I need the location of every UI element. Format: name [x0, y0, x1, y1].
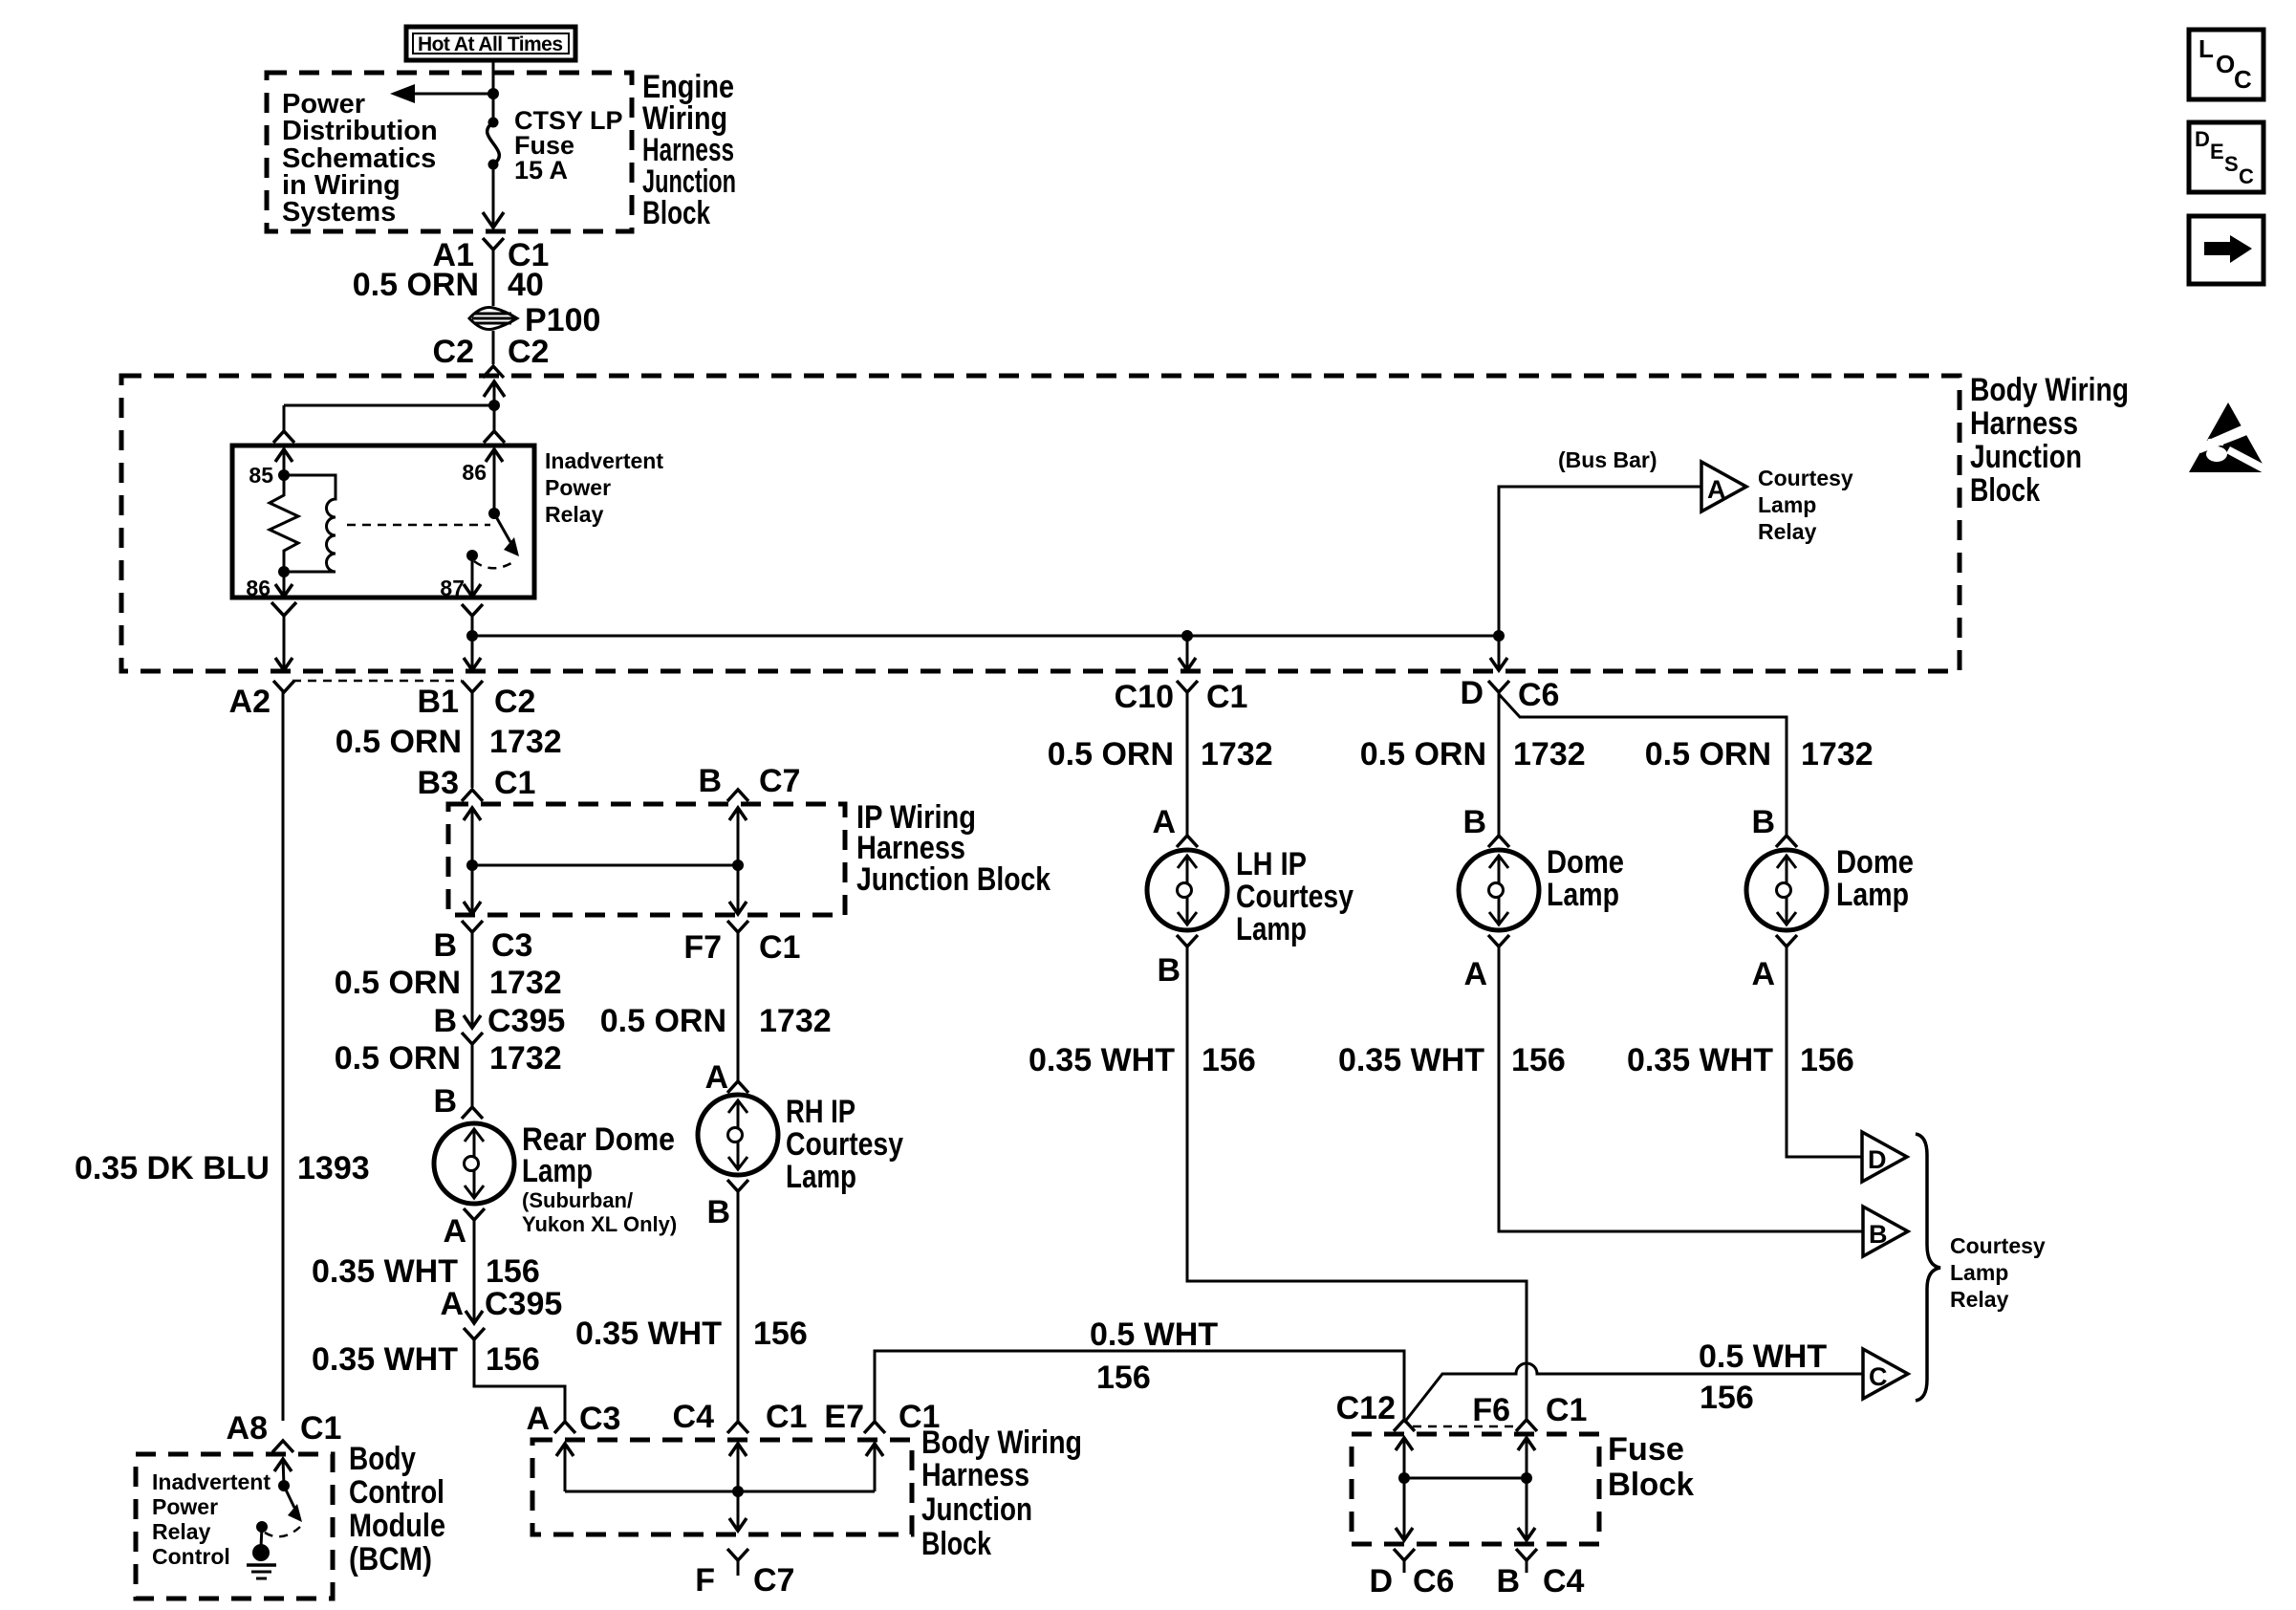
coil of relay	[284, 475, 336, 572]
connector C6 pin D (fork below fuse block)	[1394, 1549, 1415, 1560]
courtesy lamp relay pin B (triangle)	[1863, 1207, 1908, 1256]
svg-text:Body Wiring: Body Wiring	[921, 1425, 1082, 1461]
connector C6 pin D (fork below body block)	[1488, 681, 1509, 692]
connector C1 pin E7 (fork)	[864, 1422, 885, 1433]
svg-text:156: 156	[1800, 1042, 1854, 1078]
wire: fuse output lead	[492, 250, 495, 306]
svg-text:F6: F6	[1472, 1392, 1510, 1428]
svg-text:A: A	[1463, 956, 1487, 992]
svg-text:Lamp: Lamp	[522, 1153, 593, 1189]
lower block internal bus	[565, 1490, 875, 1493]
svg-text:C3: C3	[579, 1401, 620, 1437]
svg-text:156: 156	[1096, 1360, 1151, 1396]
svg-text:C: C	[2239, 164, 2254, 188]
svg-text:Block: Block	[1970, 472, 2040, 509]
wire: node 86 to case edge	[283, 572, 286, 597]
svg-text:A8: A8	[227, 1410, 268, 1447]
wire: splice to body junction block	[492, 331, 495, 364]
svg-text:1732: 1732	[1201, 736, 1273, 772]
svg-text:C1: C1	[300, 1410, 341, 1447]
label: Courtesy Lamp Relay (right)	[1950, 1233, 2046, 1312]
IP block left exit with arrow	[471, 865, 474, 914]
svg-text:156: 156	[1202, 1042, 1256, 1078]
svg-text:Power: Power	[152, 1494, 218, 1519]
label: Fuse Block	[1608, 1431, 1694, 1503]
svg-text:A: A	[1707, 475, 1726, 504]
svg-text:C10: C10	[1115, 679, 1174, 715]
wire: switched feed bus across junction block	[472, 635, 1499, 638]
connector fork at RH IP lamp pin B	[727, 1180, 748, 1191]
lower block right riser with entry arrow	[874, 1444, 877, 1491]
fuse block exit arrows	[1396, 1528, 1413, 1540]
svg-text:C2: C2	[508, 334, 549, 370]
svg-text:A2: A2	[229, 684, 271, 720]
svg-text:A: A	[443, 1213, 466, 1250]
connector fork at dome lamp 1 pin B	[1488, 836, 1509, 847]
wire: BCM control lead (0.35 DK BLU 1393)	[282, 692, 285, 1421]
body wiring harness junction block (large dashed box)	[121, 376, 1960, 671]
connector C7 pin B (fork above IP block)	[727, 790, 748, 801]
svg-text:Courtesy: Courtesy	[1950, 1233, 2046, 1258]
switch throw arc (dashed)	[474, 560, 516, 568]
svg-text:O: O	[2216, 50, 2235, 78]
connector C2 pin A2 (fork below block)	[273, 681, 294, 692]
connector fork at rear dome lamp pin A	[464, 1208, 485, 1220]
arrow at block edge (BCM control lead)	[275, 658, 292, 670]
wire: dome lamp 1 feed	[1498, 692, 1501, 836]
connector C1 pin C10 (fork below body block)	[1177, 681, 1198, 692]
icon: LOC reference box	[2189, 30, 2264, 99]
svg-text:0.5 ORN: 0.5 ORN	[1645, 736, 1771, 772]
junction node at power distribution tap	[487, 88, 499, 99]
svg-text:A: A	[704, 1059, 728, 1096]
svg-text:Courtesy: Courtesy	[1758, 466, 1853, 490]
connector C1 pin C4 (fork)	[727, 1422, 748, 1433]
arrow at engine block edge	[483, 212, 504, 228]
svg-text:Inadvertent: Inadvertent	[152, 1469, 271, 1494]
wire: rear dome lamp ground to C3 pin A	[474, 1339, 565, 1421]
svg-text:LH IP: LH IP	[1236, 846, 1307, 882]
svg-text:Dome: Dome	[1547, 844, 1624, 881]
wire: pin 86 lead to block edge	[283, 616, 286, 670]
label: Dome Lamp (1)	[1547, 844, 1624, 913]
svg-text:D: D	[2195, 127, 2210, 151]
connector fork at dome lamp 1 pin A	[1488, 935, 1509, 946]
label: Body Control Module (BCM)	[349, 1441, 445, 1577]
wire: bus drop to C2 pin B1	[471, 636, 474, 670]
wire: RH IP courtesy lamp feed	[737, 932, 740, 1081]
switch pivot node	[488, 508, 500, 519]
svg-text:B: B	[1751, 804, 1775, 840]
svg-text:Power: Power	[545, 475, 611, 500]
svg-text:Relay: Relay	[1950, 1287, 2009, 1312]
svg-text:(Bus Bar): (Bus Bar)	[1558, 447, 1657, 472]
svg-text:A: A	[1751, 956, 1775, 992]
svg-text:Control: Control	[152, 1544, 230, 1569]
svg-text:Relay: Relay	[152, 1519, 211, 1544]
fuse block right riser with entry arrow	[1526, 1438, 1528, 1540]
svg-text:Lamp: Lamp	[1758, 492, 1816, 517]
label: CTSY LP Fuse 15 A	[514, 106, 623, 185]
svg-text:Lamp: Lamp	[786, 1159, 856, 1195]
svg-text:Distribution: Distribution	[282, 116, 438, 146]
arrow leaving relay case at pin 86	[275, 584, 292, 597]
svg-text:Control: Control	[349, 1474, 444, 1511]
svg-text:C2: C2	[433, 334, 474, 370]
wire: drop to relay pin 85	[283, 405, 286, 430]
wire: rear dome lamp feed upper segment	[471, 932, 474, 1027]
connector C7 pin F (fork below block)	[727, 1549, 748, 1560]
connector C2 pin B1 (fork below block)	[462, 681, 483, 692]
svg-text:(BCM): (BCM)	[349, 1541, 432, 1577]
wire: LH IP courtesy lamp feed	[1186, 692, 1189, 836]
svg-text:E7: E7	[824, 1399, 864, 1435]
svg-text:B: B	[698, 763, 722, 799]
svg-text:Relay: Relay	[1758, 519, 1817, 544]
lower block left riser with entry arrow	[564, 1444, 567, 1491]
svg-text:Lamp: Lamp	[1836, 877, 1909, 913]
power source label "Hot At All Times"	[406, 27, 575, 60]
svg-text:B: B	[1869, 1220, 1888, 1249]
connector C1 pin A1 (fork)	[483, 238, 504, 250]
svg-text:0.5 ORN: 0.5 ORN	[336, 724, 462, 760]
svg-text:B: B	[433, 1083, 457, 1120]
note: Power Distribution Schematics in Wiring Systems	[282, 89, 438, 228]
connector fork at dome lamp 2 pin A	[1776, 935, 1797, 946]
operating link (dashed) from coil to switch	[347, 524, 490, 527]
connector C4 pin B (fork below fuse block)	[1516, 1549, 1537, 1560]
connector fork at relay pin 85	[273, 431, 294, 443]
svg-text:86: 86	[246, 576, 271, 600]
svg-text:C1: C1	[766, 1399, 807, 1435]
svg-text:156: 156	[1511, 1042, 1566, 1078]
svg-text:C4: C4	[673, 1399, 715, 1435]
svg-text:0.5 ORN: 0.5 ORN	[353, 267, 479, 303]
IP block left riser with entry arrow	[471, 808, 474, 865]
wire: courtesy feed to IP junction block	[471, 692, 474, 788]
BCM driver entry arrow	[283, 1459, 284, 1486]
connector C1 pin B3 (fork above IP block)	[462, 790, 483, 801]
in-line connector C395 (arrow and fork)	[466, 1311, 483, 1323]
wire: branch from C12 to courtesy lamp relay pin C (with hop)	[1404, 1363, 1863, 1423]
svg-text:C: C	[1869, 1362, 1888, 1391]
svg-text:Lamp: Lamp	[1547, 877, 1619, 913]
wire: RH IP lamp ground to C1 pin C4	[737, 1191, 740, 1421]
svg-text:1732: 1732	[1513, 736, 1586, 772]
svg-text:L: L	[2199, 34, 2214, 63]
svg-text:C395: C395	[485, 1286, 562, 1322]
connector C3 pin A (fork)	[554, 1422, 575, 1433]
label: Body Wiring Harness Junction Block (lower)	[921, 1425, 1082, 1562]
label: IP Wiring Harness Junction Block	[856, 799, 1051, 898]
svg-text:(Suburban/: (Suburban/	[522, 1188, 633, 1212]
wire: rear dome lamp ground upper segment	[473, 1220, 476, 1322]
svg-text:156: 156	[486, 1341, 540, 1378]
lamp: Dome Lamp (1)	[1459, 850, 1539, 930]
IP block right exit with arrow	[737, 865, 740, 914]
switch blade with arrowhead	[494, 513, 510, 542]
connector fork at rear dome lamp pin B	[462, 1107, 483, 1119]
svg-text:Harness: Harness	[1970, 405, 2078, 442]
svg-text:0.35 WHT: 0.35 WHT	[1338, 1042, 1484, 1078]
label: Courtesy Lamp Relay	[1758, 466, 1853, 544]
connector body (dashed link A2 to B1)	[292, 680, 462, 683]
wire: fuse output down to junction block edge	[492, 164, 495, 228]
svg-text:B: B	[433, 927, 457, 964]
svg-text:1732: 1732	[1801, 736, 1874, 772]
svg-text:C395: C395	[487, 1003, 565, 1039]
wire: bus bar riser to courtesy lamp relay	[1499, 487, 1701, 636]
svg-text:B1: B1	[418, 684, 459, 720]
svg-text:0.5 ORN: 0.5 ORN	[600, 1003, 726, 1039]
IP block internal bus	[472, 864, 738, 867]
wire: contact to case edge	[471, 555, 474, 597]
label: Rear Dome Lamp (Suburban/Yukon XL Only)	[522, 1121, 677, 1236]
courtesy lamp relay pin A (triangle)	[1701, 462, 1746, 511]
junction nodes on fuse bus	[1398, 1472, 1410, 1484]
brace grouping relay pins	[1916, 1134, 1940, 1401]
wire: battery feed from Hot At All Times into fuse	[492, 59, 495, 122]
svg-text:C7: C7	[753, 1562, 794, 1599]
svg-text:C1: C1	[1206, 679, 1247, 715]
relay U1: Inadvertent Power Relay (case)	[232, 446, 534, 598]
connector fork below relay pin 87	[462, 604, 483, 616]
wire: dome lamp 1 ground to courtesy lamp relay pin B	[1499, 946, 1863, 1231]
icon: DESC reference box	[2189, 122, 2264, 192]
svg-text:Yukon XL Only): Yukon XL Only)	[522, 1212, 677, 1236]
label: Body Wiring Harness Junction Block (top right)	[1970, 372, 2129, 509]
svg-text:C7: C7	[759, 763, 800, 799]
svg-text:A: A	[440, 1286, 464, 1322]
label: Inadvertent Power Relay Control	[152, 1469, 271, 1569]
svg-text:Inadvertent: Inadvertent	[545, 448, 663, 473]
BCM switch blade with arrowhead	[284, 1486, 294, 1508]
svg-text:C3: C3	[491, 927, 532, 964]
wire: LH IP lamp ground to fuse block F6	[1187, 946, 1527, 1420]
svg-text:Junction: Junction	[921, 1491, 1032, 1528]
arrow leaving relay case at pin 87	[464, 584, 481, 597]
svg-text:Dome: Dome	[1836, 844, 1914, 881]
svg-text:A: A	[526, 1401, 550, 1437]
svg-text:1732: 1732	[489, 1040, 562, 1077]
svg-text:Junction: Junction	[1970, 439, 2082, 475]
connector fork at dome lamp 2 pin B	[1776, 836, 1797, 847]
courtesy lamp relay pin C (triangle)	[1863, 1349, 1908, 1399]
svg-text:87: 87	[440, 576, 465, 600]
lamp: Rear Dome Lamp	[434, 1123, 514, 1204]
svg-text:0.5 ORN: 0.5 ORN	[335, 1040, 461, 1077]
connector C2 fork at body junction block	[483, 366, 504, 378]
svg-text:C: C	[2234, 65, 2252, 94]
svg-text:B: B	[706, 1194, 730, 1230]
connector fork at RH IP lamp pin A	[727, 1081, 748, 1093]
fuse block (dashed box)	[1352, 1434, 1599, 1544]
icon: ESD sensitive device symbol	[2189, 402, 2270, 475]
svg-text:C1: C1	[1546, 1392, 1587, 1428]
svg-text:B: B	[1496, 1563, 1520, 1599]
svg-text:0.35 WHT: 0.35 WHT	[575, 1316, 722, 1352]
body control module BCM (dashed box)	[136, 1454, 333, 1599]
svg-text:A: A	[1152, 804, 1176, 840]
svg-text:RH IP: RH IP	[786, 1094, 856, 1130]
svg-text:0.35 WHT: 0.35 WHT	[1029, 1042, 1175, 1078]
wire: tap to power distribution schematics (left arrow)	[411, 93, 493, 96]
svg-text:C2: C2	[494, 684, 535, 720]
svg-text:Block: Block	[921, 1526, 991, 1562]
svg-text:Module: Module	[349, 1508, 445, 1544]
svg-text:F: F	[695, 1562, 715, 1599]
wire: dome lamp 2 ground to courtesy lamp relay pin D	[1787, 946, 1862, 1157]
wire: pin 87 lead to bus node	[471, 616, 474, 636]
connector C3 pin B (fork below IP block)	[462, 921, 483, 932]
svg-text:0.5 ORN: 0.5 ORN	[1360, 736, 1486, 772]
junction node above relay	[488, 400, 500, 411]
node 86 (coil low side)	[278, 566, 290, 577]
svg-text:D: D	[1460, 675, 1484, 711]
svg-text:1732: 1732	[489, 724, 562, 760]
svg-text:0.5 ORN: 0.5 ORN	[335, 965, 461, 1001]
lamp: Dome Lamp (2)	[1746, 850, 1827, 930]
wire: 0.5 WHT 156 from E7 to fuse block C12	[875, 1351, 1404, 1422]
svg-text:Junction Block: Junction Block	[856, 861, 1051, 898]
svg-text:156: 156	[1700, 1380, 1754, 1416]
in-line connector C395 (arrow and fork)	[464, 1015, 481, 1028]
wire: branch from D to dome lamp 2	[1499, 694, 1787, 836]
body wiring harness junction block lower (dashed box)	[532, 1440, 912, 1534]
ground symbol	[247, 1563, 276, 1567]
junction node: switched feed bus origin	[466, 630, 478, 642]
label: Dome Lamp (2)	[1836, 844, 1914, 913]
BCM switch pivot node	[278, 1480, 290, 1491]
svg-text:1732: 1732	[489, 965, 562, 1001]
label: Inadvertent Power Relay	[545, 448, 663, 527]
BCM switch throw arc (dashed)	[265, 1527, 300, 1536]
label: RH IP Courtesy Lamp	[786, 1094, 903, 1195]
connector C1 pin F6 (fork above fuse block)	[1516, 1420, 1537, 1431]
svg-text:Block: Block	[1608, 1467, 1694, 1503]
wire: bus drop to C1 pin C10	[1186, 636, 1189, 670]
svg-text:F7: F7	[683, 929, 722, 966]
svg-text:Courtesy: Courtesy	[786, 1126, 903, 1163]
connector fork below relay pin 86	[271, 602, 296, 616]
svg-text:0.35 WHT: 0.35 WHT	[1627, 1042, 1773, 1078]
svg-text:0.5 WHT: 0.5 WHT	[1699, 1338, 1827, 1375]
connector C1 pin A8 (fork above BCM)	[272, 1441, 293, 1452]
svg-text:C12: C12	[1336, 1390, 1396, 1426]
junction node on lower bus	[732, 1486, 744, 1497]
engine wiring harness junction block (dashed box)	[267, 73, 632, 231]
junction node on IP bus (left)	[466, 859, 478, 871]
fuse block left riser with entry arrow	[1403, 1438, 1406, 1540]
switch common feed arrow	[493, 449, 496, 513]
svg-text:Body: Body	[349, 1441, 416, 1477]
svg-text:C1: C1	[759, 929, 800, 966]
svg-text:C1: C1	[494, 765, 535, 801]
lamp: RH IP Courtesy Lamp	[698, 1095, 778, 1175]
svg-text:C6: C6	[1518, 677, 1559, 713]
svg-text:15 A: 15 A	[514, 156, 568, 185]
lower block middle riser with entry arrow	[737, 1444, 740, 1531]
icon: forward arrow box	[2189, 216, 2264, 284]
wire: feed across to relay coil pin 85	[284, 404, 494, 407]
connector C1 pin C12 (fork above fuse block)	[1394, 1420, 1415, 1431]
pin 85 entry arrow	[283, 449, 286, 475]
connector fork at LH IP lamp pin B	[1177, 935, 1198, 946]
svg-text:1393: 1393	[297, 1150, 370, 1186]
svg-text:156: 156	[486, 1253, 540, 1290]
svg-text:0.35 WHT: 0.35 WHT	[312, 1253, 458, 1290]
svg-text:Harness: Harness	[921, 1457, 1029, 1493]
IP wiring harness junction block (dashed box)	[448, 804, 845, 915]
arrow entering junction block	[484, 381, 505, 397]
junction node at C10 drop	[1181, 630, 1193, 642]
wire: drop to relay pin 86 (switch)	[493, 405, 496, 430]
svg-text:Block: Block	[642, 195, 710, 231]
resistor (relay coil suppression)	[270, 475, 298, 572]
courtesy lamp relay pin D (triangle)	[1862, 1132, 1907, 1182]
svg-text:Systems: Systems	[282, 197, 396, 228]
svg-text:S: S	[2224, 152, 2239, 176]
svg-text:156: 156	[753, 1316, 808, 1352]
BCM switch contact node	[256, 1521, 268, 1533]
label: LH IP Courtesy Lamp	[1236, 846, 1354, 947]
node 85	[278, 469, 290, 481]
svg-text:C6: C6	[1413, 1563, 1454, 1599]
svg-text:0.35 WHT: 0.35 WHT	[312, 1341, 458, 1378]
fuse CTSY LP 15 A	[488, 118, 499, 128]
ground stem and ball	[261, 1527, 262, 1547]
junction node on IP bus (right)	[732, 859, 744, 871]
svg-text:B: B	[433, 1003, 457, 1039]
svg-text:40: 40	[508, 267, 544, 303]
svg-text:Courtesy: Courtesy	[1236, 879, 1354, 915]
wire: rear dome lamp feed lower segment	[471, 1044, 474, 1107]
connector fork at relay pin 86	[484, 431, 505, 443]
svg-text:B3: B3	[418, 765, 459, 801]
wire: bus drop to C6 pin D	[1498, 636, 1501, 670]
svg-text:Hot At All Times: Hot At All Times	[418, 33, 563, 55]
svg-text:Lamp: Lamp	[1950, 1260, 2008, 1285]
fuse block internal bus	[1404, 1477, 1527, 1480]
splice P100	[469, 307, 517, 329]
svg-text:85: 85	[249, 463, 273, 488]
svg-text:Lamp: Lamp	[1236, 911, 1307, 947]
connector fork at LH IP lamp pin A	[1177, 836, 1198, 847]
svg-text:86: 86	[462, 460, 487, 485]
svg-text:C4: C4	[1543, 1563, 1585, 1599]
label: Engine Wiring Harness Junction Block	[642, 69, 736, 231]
lower block exit arrow	[729, 1518, 747, 1531]
IP block right riser with entry arrow	[737, 808, 740, 865]
svg-text:B: B	[1157, 952, 1180, 989]
svg-text:0.5 ORN: 0.5 ORN	[1048, 736, 1174, 772]
svg-text:1732: 1732	[759, 1003, 832, 1039]
svg-text:D: D	[1868, 1145, 1887, 1174]
svg-text:Relay: Relay	[545, 502, 604, 527]
connector C1 pin F7 (fork below IP block)	[727, 921, 748, 932]
svg-text:B: B	[1462, 804, 1486, 840]
svg-text:0.35 DK BLU: 0.35 DK BLU	[75, 1150, 270, 1186]
switch contact node (pin 87)	[466, 550, 478, 561]
svg-text:D: D	[1369, 1563, 1393, 1599]
lamp: LH IP Courtesy Lamp	[1147, 850, 1227, 930]
wire: C2 feed into junction block interior	[493, 381, 496, 405]
svg-text:0.5 WHT: 0.5 WHT	[1090, 1316, 1218, 1353]
junction node at bus bar riser	[1493, 630, 1505, 642]
svg-text:E: E	[2210, 140, 2224, 163]
svg-text:Body Wiring: Body Wiring	[1970, 372, 2129, 408]
connector body (dashed link C12 to F6)	[1413, 1425, 1518, 1428]
